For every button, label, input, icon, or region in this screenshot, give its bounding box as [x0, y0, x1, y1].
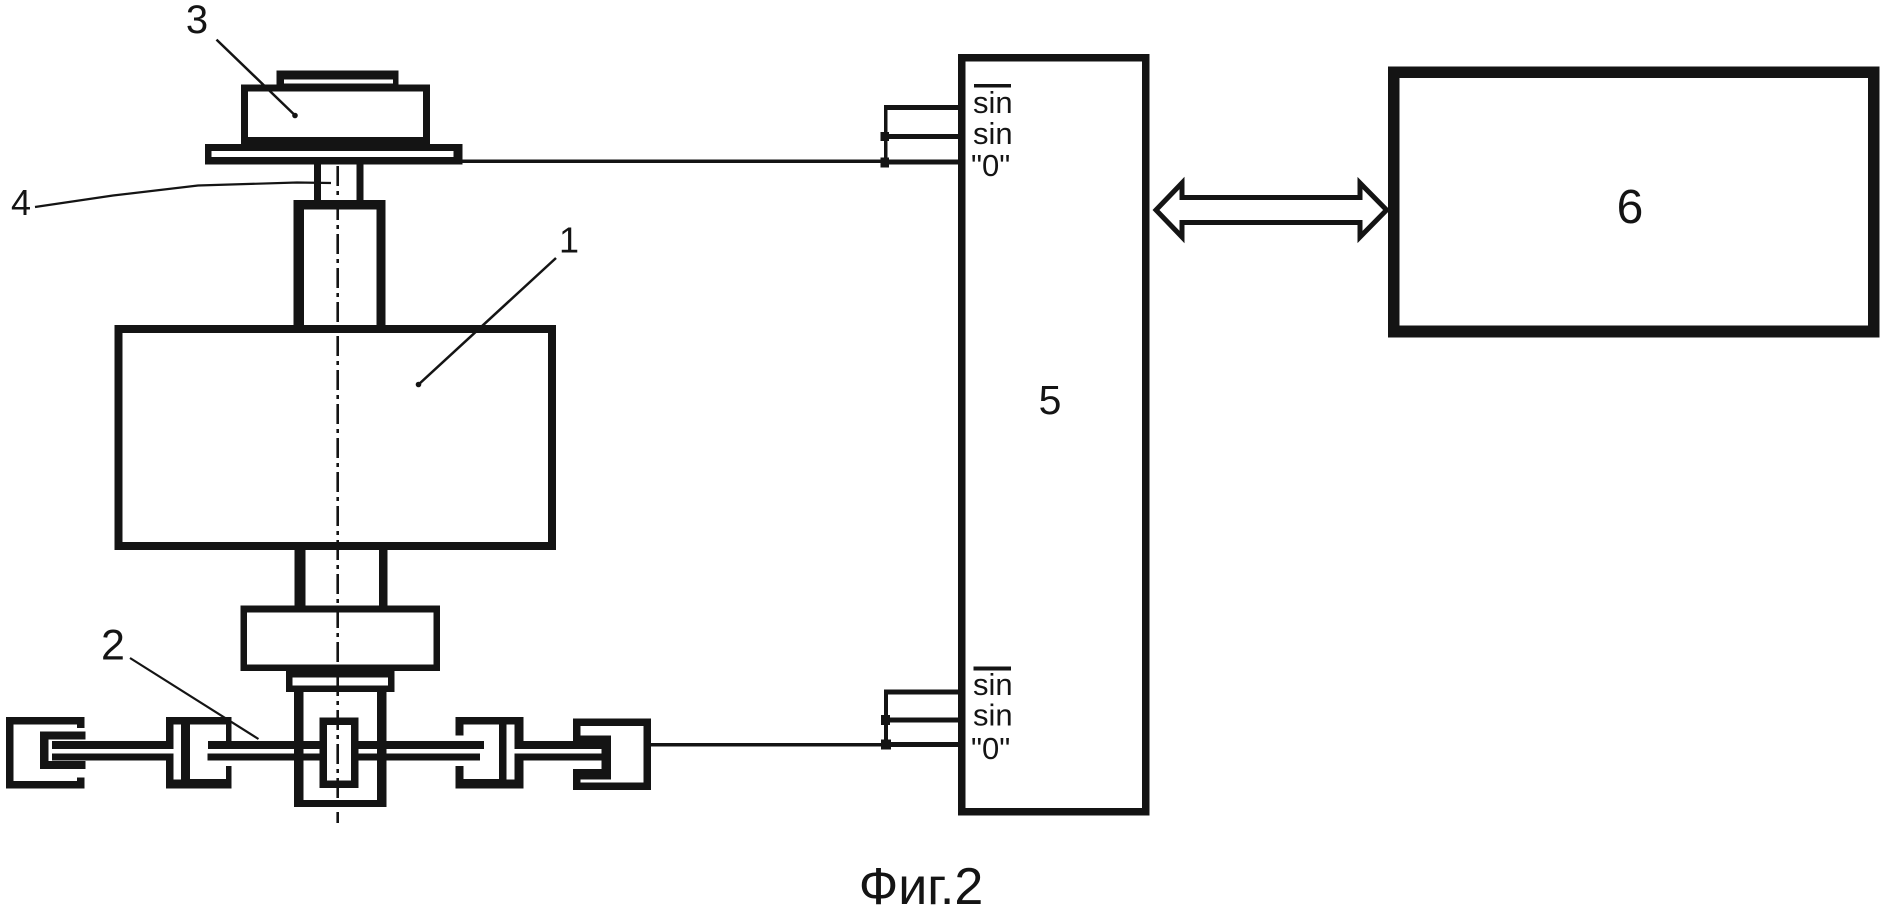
flange plate under sensor	[205, 144, 463, 165]
computer box 6	[1388, 66, 1880, 337]
leader line for label 2	[130, 658, 259, 739]
coupling B	[166, 717, 232, 789]
sensor box 3	[241, 84, 430, 144]
coupling bracket A	[6, 717, 86, 789]
lower shaft walls	[294, 550, 387, 606]
svg-text:sin: sin	[973, 116, 1013, 151]
svg-text:sin: sin	[973, 698, 1013, 733]
upper shaft walls	[314, 165, 363, 201]
bottom sin labels	[971, 667, 1013, 766]
converter box 5	[958, 54, 1150, 816]
top junction dots	[881, 132, 890, 168]
svg-text:3: 3	[186, 0, 208, 42]
top plate on sensor 3	[276, 71, 398, 86]
coupling bracket D	[573, 719, 651, 791]
collar block	[240, 606, 440, 671]
upper bearing block	[294, 200, 386, 332]
leader line for label 4	[35, 183, 331, 208]
hub in housing	[320, 718, 359, 789]
svg-text:6: 6	[1617, 181, 1644, 234]
svg-text:2: 2	[101, 622, 125, 670]
horizontal shaft	[52, 741, 603, 761]
bottom connection wires to box 5	[884, 690, 966, 748]
svg-text:"0": "0"	[971, 148, 1010, 183]
overline of bottom sin label	[973, 666, 1010, 670]
leader line for label 3	[217, 40, 298, 119]
overline of top sin label	[974, 84, 1011, 88]
svg-text:4: 4	[11, 182, 31, 223]
svg-text:Фиг.2: Фиг.2	[859, 858, 984, 916]
svg-text:"0": "0"	[971, 731, 1010, 766]
lower housing	[294, 692, 387, 807]
svg-text:1: 1	[559, 220, 579, 261]
top sin labels	[971, 85, 1013, 183]
bidirectional bus arrow	[1156, 183, 1387, 237]
top connection wires to box 5	[884, 105, 966, 165]
wire from flange to converter 5	[462, 159, 886, 163]
leader line for label 1	[416, 258, 556, 387]
neck flange	[286, 671, 395, 692]
bottom junction dots	[881, 715, 891, 750]
wire from shaft line to converter 5	[651, 743, 886, 747]
svg-text:sin: sin	[973, 85, 1013, 120]
coupling C	[456, 717, 524, 789]
svg-text:5: 5	[1039, 377, 1062, 423]
machine body 1	[115, 325, 557, 550]
vertical dash-dot centerline	[336, 166, 339, 823]
